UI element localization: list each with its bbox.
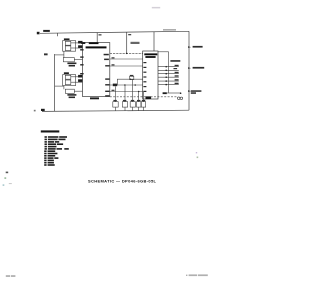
wire bottom bus (42, 110, 189, 111)
terminal TB1 (37, 30, 50, 34)
footer left (6, 275, 16, 277)
control unit U1 NEUTRAL GROUNDING CONTROL (80, 42, 110, 99)
wire dash-dot (110, 52, 143, 54)
wire (110, 91, 143, 93)
node label on top bus (163, 29, 176, 30)
wire right bus (188, 31, 190, 110)
label BLOWER (193, 46, 203, 48)
label GND BUS below U1 (90, 97, 99, 99)
node G1 label (44, 53, 48, 55)
abbreviations heading (41, 130, 60, 132)
transformer T1 small box (130, 75, 134, 80)
wire (110, 65, 143, 67)
label SOURCE GND (191, 90, 202, 94)
relay K1 J-BOX upper (63, 38, 83, 51)
scan specks left (3, 172, 12, 186)
node label on wire (113, 84, 117, 87)
connector J1 ALTERNATOR pin field (158, 52, 181, 94)
wire (110, 58, 143, 60)
page number top (152, 7, 160, 8)
label GND bold at U2 bottom (146, 96, 152, 99)
node label GROUND mid (131, 42, 140, 44)
wire alt bus (158, 51, 169, 53)
terminal TB2 (34, 109, 45, 112)
ground symbol (177, 92, 182, 99)
wire interconnects U1 to U2 (99, 34, 177, 97)
pin labels U2 internal (143, 62, 146, 92)
wire top bus (40, 31, 189, 33)
wire (110, 84, 143, 86)
pin labels U1 left (80, 49, 83, 74)
resistor R1 with field winding upper (55, 51, 83, 66)
wire left vertical (54, 54, 56, 111)
relay K2 J-BOX lower (63, 72, 83, 85)
wire partial with step (117, 79, 142, 85)
wire drop to regulator (153, 32, 155, 51)
arrow to alternator field (188, 67, 191, 69)
arrow to source gnd (188, 90, 191, 92)
capacitor bank C1-C5 (113, 79, 146, 111)
wire dashed gnd (110, 96, 177, 98)
wire drop to neutral control (96, 33, 98, 43)
abbreviation list lines (44, 136, 69, 166)
scan specks right (196, 152, 198, 158)
resistor R2 with field winding lower (55, 86, 83, 99)
wire drop mid (126, 32, 128, 53)
arrow to blower (188, 46, 191, 48)
junction dots (124, 53, 139, 93)
wire gnd row (167, 92, 181, 94)
footer right (186, 274, 208, 276)
svg-text:SCHEMATIC — DP046-6GB-05L: SCHEMATIC — DP046-6GB-05L (88, 179, 157, 184)
regulator U2 A-C GENERATOR REGULATOR (143, 51, 158, 99)
pin labels U1 right (104, 54, 110, 97)
pin number labels (99, 34, 132, 91)
wire stub to J-BOX (57, 33, 59, 36)
label ALTERNATOR (193, 67, 205, 69)
